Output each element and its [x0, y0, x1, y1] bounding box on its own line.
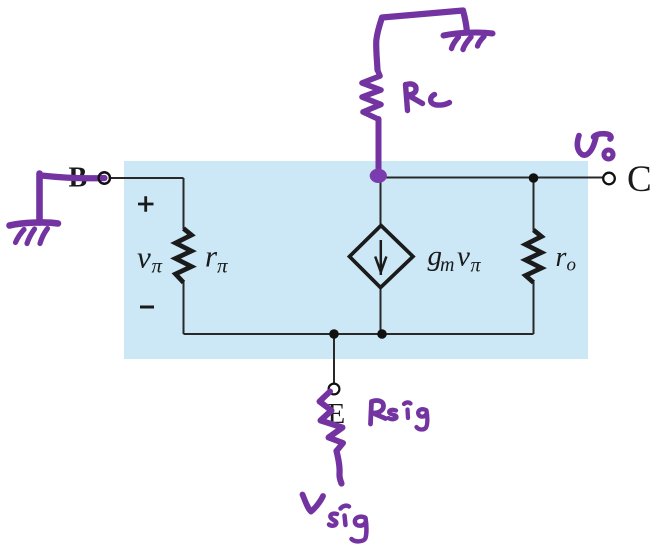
- node dot bottom rail at source branch: [377, 329, 387, 339]
- terminal C open circle: [603, 173, 615, 185]
- terminal B ring redrawn above purple wire: [99, 172, 110, 183]
- dependent current source diamond g_m*v_pi: [350, 226, 414, 288]
- label Vsig: letter s: [329, 514, 337, 526]
- label Rsig: letter s: [389, 410, 397, 419]
- wire: purple vertical down to ground: [36, 174, 43, 223]
- minus sign: [140, 306, 154, 309]
- resistor Rsig squiggle at E: [320, 392, 344, 452]
- plus sign: [138, 196, 154, 211]
- ground (left) hatch 2: [27, 229, 35, 244]
- svg-text:m: m: [440, 254, 454, 276]
- node dot bottom rail at emitter stub: [329, 329, 339, 339]
- wire: r_o top lead: [533, 178, 535, 231]
- svg-text:π: π: [217, 254, 228, 278]
- arrow inside source: [380, 240, 383, 275]
- wire: purple horizontal from B to left corner: [41, 176, 105, 179]
- resistor RC squiggle: [362, 70, 381, 119]
- ground (left) hatch 1: [16, 230, 25, 243]
- terminal E open circle: [329, 384, 340, 395]
- ground (top right) hatch 3: [478, 37, 485, 47]
- resistor r_pi: [176, 229, 192, 283]
- wire: purple tail below Rsig: [337, 451, 342, 484]
- wire: r_pi top lead: [183, 178, 185, 229]
- label RC: letter R: [406, 84, 423, 111]
- ground (left) hatch 3: [40, 229, 48, 244]
- label Vsig: letter g: [352, 517, 367, 542]
- svg-text:r: r: [556, 242, 567, 273]
- ground (top right) hatch 1: [452, 37, 459, 49]
- label Rsig: letter g: [417, 409, 428, 429]
- wire: r_o bottom lead: [533, 282, 535, 334]
- terminal B open circle: [99, 172, 110, 183]
- wire: r_pi bottom lead: [183, 282, 185, 334]
- shaded hybrid-pi model region: [124, 161, 588, 359]
- node: purple collector junction dot: [370, 169, 387, 183]
- label Rsig: letter i: [404, 402, 411, 418]
- wire: emitter stub down to E: [333, 334, 335, 384]
- wire: dependent source bottom lead: [380, 287, 382, 334]
- label RC: letter c: [431, 95, 450, 106]
- label Vsig: letter i: [341, 506, 350, 525]
- svg-text:C: C: [627, 159, 652, 200]
- ground (top right) bar: [444, 32, 493, 35]
- wire: purple collector riser below resistor RC: [376, 119, 382, 171]
- svg-text:v: v: [457, 241, 470, 273]
- svg-text:π: π: [152, 254, 163, 278]
- wire: B lead to r_pi corner: [110, 177, 184, 179]
- label Rsig: letter R: [371, 401, 386, 424]
- svg-text:o: o: [567, 255, 577, 276]
- wire: purple riser above RC, top run and drop to ground: [376, 11, 467, 71]
- svg-text:v: v: [137, 240, 151, 275]
- resistor r_o: [526, 230, 542, 283]
- label vo: subscript o: [604, 150, 613, 159]
- svg-text:π: π: [471, 255, 482, 277]
- wire: collector rail from node to C: [372, 177, 603, 179]
- node dot on top rail at r_o branch: [529, 173, 539, 183]
- label Vsig: letter V: [303, 495, 324, 512]
- wire: bottom rail: [184, 333, 534, 335]
- label vo (output voltage): [577, 134, 611, 155]
- ground (left) bar: [10, 222, 59, 225]
- ground (top right) hatch 2: [463, 37, 471, 50]
- wire: dependent source top lead: [380, 178, 382, 226]
